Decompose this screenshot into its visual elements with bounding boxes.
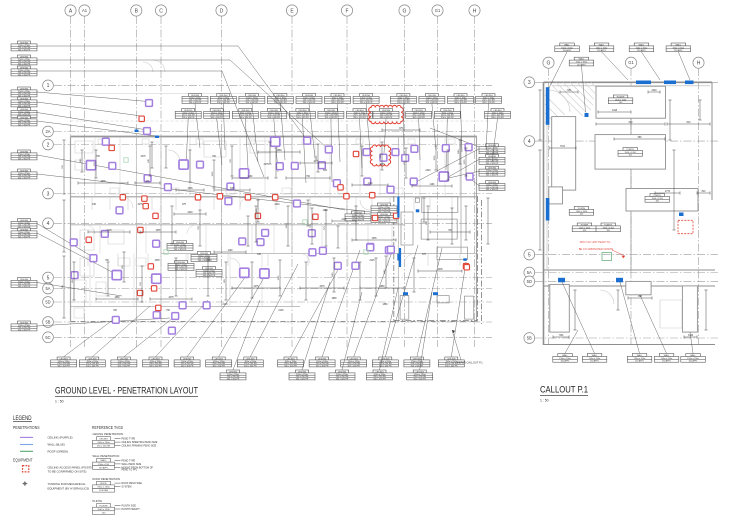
svg-text:3475: 3475 bbox=[140, 156, 146, 158]
svg-text:5A: 5A bbox=[527, 270, 532, 275]
svg-text:2770: 2770 bbox=[665, 191, 671, 193]
svg-text:G1: G1 bbox=[628, 60, 634, 65]
svg-text:3475: 3475 bbox=[319, 286, 325, 288]
right tag stack leaders bbox=[416, 128, 479, 186]
svg-text:1190: 1190 bbox=[430, 184, 436, 186]
svg-text:1880: 1880 bbox=[379, 286, 385, 288]
svg-text:760: 760 bbox=[96, 156, 101, 158]
revision cloud around tag bbox=[369, 105, 404, 123]
svg-text:760: 760 bbox=[166, 310, 171, 312]
svg-text:SPLIT AC UNIT PENO TO -: SPLIT AC UNIT PENO TO - bbox=[580, 240, 612, 244]
callout region boundary in main plan bbox=[394, 196, 482, 324]
callout rooms / plinths bbox=[549, 86, 698, 332]
svg-text:1 : 50: 1 : 50 bbox=[540, 399, 549, 403]
split AC unit red note bbox=[579, 240, 614, 251]
interior light detail lines bbox=[75, 60, 460, 276]
ceiling penetration tag row 2 (top) bbox=[175, 109, 201, 120]
svg-text:5C: 5C bbox=[45, 335, 50, 340]
svg-text:SYSTEM: SYSTEM bbox=[122, 486, 132, 489]
svg-text:3448: 3448 bbox=[651, 90, 657, 92]
svg-text:3475: 3475 bbox=[379, 164, 385, 166]
svg-text:G: G bbox=[403, 8, 407, 14]
callout walls bbox=[544, 82, 716, 345]
svg-text:3475: 3475 bbox=[168, 297, 174, 299]
svg-text:ROOF (GREEN): ROOF (GREEN) bbox=[48, 450, 69, 454]
svg-text:760: 760 bbox=[105, 260, 110, 262]
svg-text:CEILING FRAMING PENO SIZE: CEILING FRAMING PENO SIZE bbox=[122, 445, 157, 448]
svg-text:PENO TYPE: PENO TYPE bbox=[122, 459, 136, 462]
ceiling access panel symbol bbox=[23, 466, 29, 472]
svg-text:GROUND LEVEL - PENETRATION LAY: GROUND LEVEL - PENETRATION LAYOUT bbox=[55, 386, 198, 396]
svg-text:1190: 1190 bbox=[80, 158, 82, 163]
main plan column grid lines and bubbles bbox=[71, 16, 475, 347]
vertical dim numbers bbox=[62, 149, 466, 289]
svg-text:150 AFFL: 150 AFFL bbox=[99, 466, 109, 469]
right section rooms (callout source) bbox=[401, 197, 474, 320]
svg-text:1535: 1535 bbox=[437, 269, 443, 271]
svg-text:1190: 1190 bbox=[384, 269, 386, 274]
svg-text:PLINTH: PLINTH bbox=[93, 499, 103, 503]
leader lines from left tags bbox=[37, 46, 371, 326]
svg-text:1880: 1880 bbox=[382, 304, 388, 306]
callout bottom tags bbox=[553, 354, 578, 363]
svg-text:1535: 1535 bbox=[212, 171, 214, 177]
svg-text:1880: 1880 bbox=[114, 297, 120, 299]
roof green legend bbox=[20, 450, 33, 452]
svg-text:2145: 2145 bbox=[278, 310, 284, 312]
svg-text:5: 5 bbox=[47, 275, 50, 281]
callout grid rows bbox=[535, 82, 718, 338]
svg-text:3475: 3475 bbox=[263, 164, 269, 166]
svg-text:5A: 5A bbox=[45, 286, 50, 291]
svg-text:1535: 1535 bbox=[286, 223, 288, 229]
svg-text:F: F bbox=[345, 8, 348, 14]
svg-text:760: 760 bbox=[113, 310, 118, 312]
svg-text:5B: 5B bbox=[527, 335, 532, 340]
svg-text:2440: 2440 bbox=[187, 212, 193, 214]
svg-text:1535: 1535 bbox=[371, 238, 377, 240]
bottom tag row 2 bbox=[220, 370, 246, 381]
svg-text:WALL PENO SIZE: WALL PENO SIZE bbox=[122, 463, 142, 466]
svg-text:H: H bbox=[473, 8, 477, 14]
svg-text:7151: 7151 bbox=[560, 146, 566, 148]
svg-text:C: C bbox=[159, 8, 163, 14]
svg-text:1880: 1880 bbox=[276, 150, 282, 152]
svg-text:810: 810 bbox=[629, 122, 634, 124]
ceiling penetration tag row 1 (top) bbox=[182, 94, 208, 105]
tundish symbol bbox=[23, 481, 28, 486]
svg-text:TO BE CONFIRMED ON SITE): TO BE CONFIRMED ON SITE) bbox=[48, 470, 87, 474]
svg-text:1190: 1190 bbox=[248, 176, 254, 178]
svg-text:2440: 2440 bbox=[206, 260, 212, 262]
callout top wall tags bbox=[555, 43, 580, 52]
main plan row grid lines and bubbles bbox=[54, 85, 492, 337]
in-plan tag clusters bbox=[167, 241, 193, 252]
svg-text:ROOF PENO SIZE: ROOF PENO SIZE bbox=[122, 482, 143, 485]
svg-text:1 : 50: 1 : 50 bbox=[55, 400, 64, 404]
svg-text:975: 975 bbox=[422, 254, 427, 256]
svg-text:4: 4 bbox=[47, 221, 50, 227]
svg-text:3475: 3475 bbox=[313, 161, 319, 163]
svg-text:CEILING PENETRATION: CEILING PENETRATION bbox=[93, 432, 123, 436]
svg-text:2A: 2A bbox=[45, 129, 50, 134]
svg-text:1: 1 bbox=[47, 83, 50, 89]
ceiling purple legend bbox=[20, 436, 33, 438]
red equipment markers bbox=[139, 116, 144, 121]
svg-text:760: 760 bbox=[306, 176, 311, 178]
blue wall penetration markers bbox=[135, 130, 467, 296]
svg-text:REFERENCE TAGS: REFERENCE TAGS bbox=[92, 425, 123, 430]
svg-text:1535: 1535 bbox=[155, 230, 161, 232]
svg-text:1880: 1880 bbox=[331, 298, 337, 300]
svg-text:250 x 250 SH: 250 x 250 SH bbox=[97, 446, 111, 448]
svg-text:H: H bbox=[697, 61, 701, 67]
svg-text:1535: 1535 bbox=[256, 208, 258, 214]
svg-text:LEGEND: LEGEND bbox=[13, 415, 32, 422]
svg-text:1535: 1535 bbox=[100, 181, 106, 183]
svg-text:1190: 1190 bbox=[458, 149, 460, 154]
svg-text:2145: 2145 bbox=[369, 260, 375, 262]
svg-text:WALL (BLUE): WALL (BLUE) bbox=[48, 443, 65, 447]
svg-text:5: 5 bbox=[528, 252, 531, 258]
svg-text:1190: 1190 bbox=[228, 250, 234, 252]
callout top tag leaders bbox=[549, 52, 690, 112]
svg-text:PLINTH SIZE: PLINTH SIZE bbox=[122, 504, 137, 507]
callout grid verticals G G1 H bbox=[549, 68, 699, 345]
callout bottom tag leaders bbox=[562, 282, 693, 353]
svg-text:645: 645 bbox=[257, 254, 262, 256]
interior partitions texture bbox=[74, 137, 460, 318]
svg-text:1535: 1535 bbox=[464, 159, 466, 165]
svg-text:975: 975 bbox=[182, 204, 187, 206]
svg-text:1190: 1190 bbox=[323, 210, 329, 212]
svg-text:810: 810 bbox=[702, 191, 707, 193]
svg-text:CALLOUT P.1: CALLOUT P.1 bbox=[540, 385, 588, 395]
svg-text:810: 810 bbox=[687, 122, 692, 124]
svg-text:A1: A1 bbox=[82, 8, 88, 13]
svg-text:1190: 1190 bbox=[332, 272, 334, 277]
svg-text:1535: 1535 bbox=[154, 260, 160, 262]
svg-text:EQUIPMENT (BY HYDRAULICS): EQUIPMENT (BY HYDRAULICS) bbox=[48, 486, 90, 490]
extra rooms right section bbox=[400, 198, 419, 319]
svg-text:REFER CALLOUT P.1: REFER CALLOUT P.1 bbox=[457, 361, 483, 365]
svg-text:EQUIPMENT: EQUIPMENT bbox=[13, 458, 33, 463]
svg-text:2145: 2145 bbox=[222, 304, 228, 306]
leader lines fanning to bottom tags bbox=[64, 245, 466, 370]
svg-text:BE CO-ORDINATED ONSITE.: BE CO-ORDINATED ONSITE. bbox=[579, 247, 614, 251]
svg-text:CEILING SHEETING PENO SIZE: CEILING SHEETING PENO SIZE bbox=[122, 441, 158, 444]
svg-text:3448: 3448 bbox=[612, 110, 618, 112]
svg-text:4: 4 bbox=[528, 139, 531, 145]
svg-text:7151: 7151 bbox=[558, 335, 564, 337]
svg-text:645: 645 bbox=[92, 204, 97, 206]
svg-text:3: 3 bbox=[47, 191, 50, 197]
svg-text:3475: 3475 bbox=[253, 286, 259, 288]
svg-text:SYSTEM: SYSTEM bbox=[99, 490, 108, 492]
svg-text:G: G bbox=[547, 61, 551, 67]
svg-text:1535: 1535 bbox=[187, 188, 193, 190]
svg-text:WALL: WALL bbox=[101, 459, 108, 462]
tiny dimension numbers bbox=[92, 128, 453, 312]
svg-text:5D: 5D bbox=[45, 299, 50, 304]
svg-text:975: 975 bbox=[399, 128, 404, 130]
svg-text:5D: 5D bbox=[527, 279, 532, 284]
building walls main plan bbox=[71, 94, 491, 323]
right tag stack bbox=[479, 144, 505, 155]
callout blue wall penetrations bbox=[546, 81, 694, 283]
leader lines from top tags bbox=[186, 104, 498, 183]
left tag stack bbox=[11, 41, 37, 52]
svg-text:1190: 1190 bbox=[368, 183, 374, 185]
purple ceiling penetration markers bbox=[146, 100, 153, 107]
svg-text:G1: G1 bbox=[435, 8, 441, 13]
callout dimensions bbox=[538, 90, 710, 339]
svg-text:3448: 3448 bbox=[688, 335, 694, 337]
callout green box bbox=[602, 253, 612, 261]
svg-text:2440: 2440 bbox=[425, 170, 431, 172]
svg-text:TUNDISH FOR MECHANICAL: TUNDISH FOR MECHANICAL bbox=[48, 482, 87, 486]
svg-text:PENO TO FFL: PENO TO FFL bbox=[122, 469, 138, 472]
svg-text:PENO TYPE: PENO TYPE bbox=[122, 438, 136, 441]
wall blue legend bbox=[20, 444, 33, 446]
svg-text:7151: 7151 bbox=[566, 90, 572, 92]
svg-text:2440: 2440 bbox=[274, 204, 280, 206]
green roof penetration markers bbox=[124, 158, 368, 254]
svg-text:PENETRATIONS: PENETRATIONS bbox=[13, 425, 40, 430]
svg-text:1535: 1535 bbox=[380, 153, 382, 159]
svg-text:3: 3 bbox=[528, 80, 531, 86]
svg-text:1535: 1535 bbox=[316, 155, 318, 161]
svg-text:CEILING (PURPLE): CEILING (PURPLE) bbox=[48, 436, 73, 440]
bottom tag row 1 bbox=[51, 357, 77, 368]
svg-text:2145: 2145 bbox=[106, 230, 112, 232]
dimension lines main plan bbox=[62, 128, 489, 318]
svg-text:2: 2 bbox=[47, 142, 50, 148]
callout plinth tags in plan bbox=[608, 95, 633, 104]
svg-text:1535: 1535 bbox=[434, 155, 436, 161]
svg-text:958: 958 bbox=[638, 296, 643, 298]
svg-text:1535: 1535 bbox=[278, 275, 280, 281]
svg-text:WALL PENETRATION: WALL PENETRATION bbox=[93, 454, 120, 458]
red cloud around purple marker bbox=[370, 145, 390, 166]
svg-text:645: 645 bbox=[323, 170, 328, 172]
svg-text:D: D bbox=[220, 8, 224, 14]
svg-text:2145: 2145 bbox=[341, 219, 347, 221]
svg-text:PLINTH HEIGHT: PLINTH HEIGHT bbox=[122, 508, 141, 511]
svg-text:3475: 3475 bbox=[137, 204, 143, 206]
svg-text:5B: 5B bbox=[45, 319, 50, 324]
svg-text:ROOF PENETRATION: ROOF PENETRATION bbox=[93, 477, 120, 481]
callout red dashed box bbox=[678, 220, 693, 233]
